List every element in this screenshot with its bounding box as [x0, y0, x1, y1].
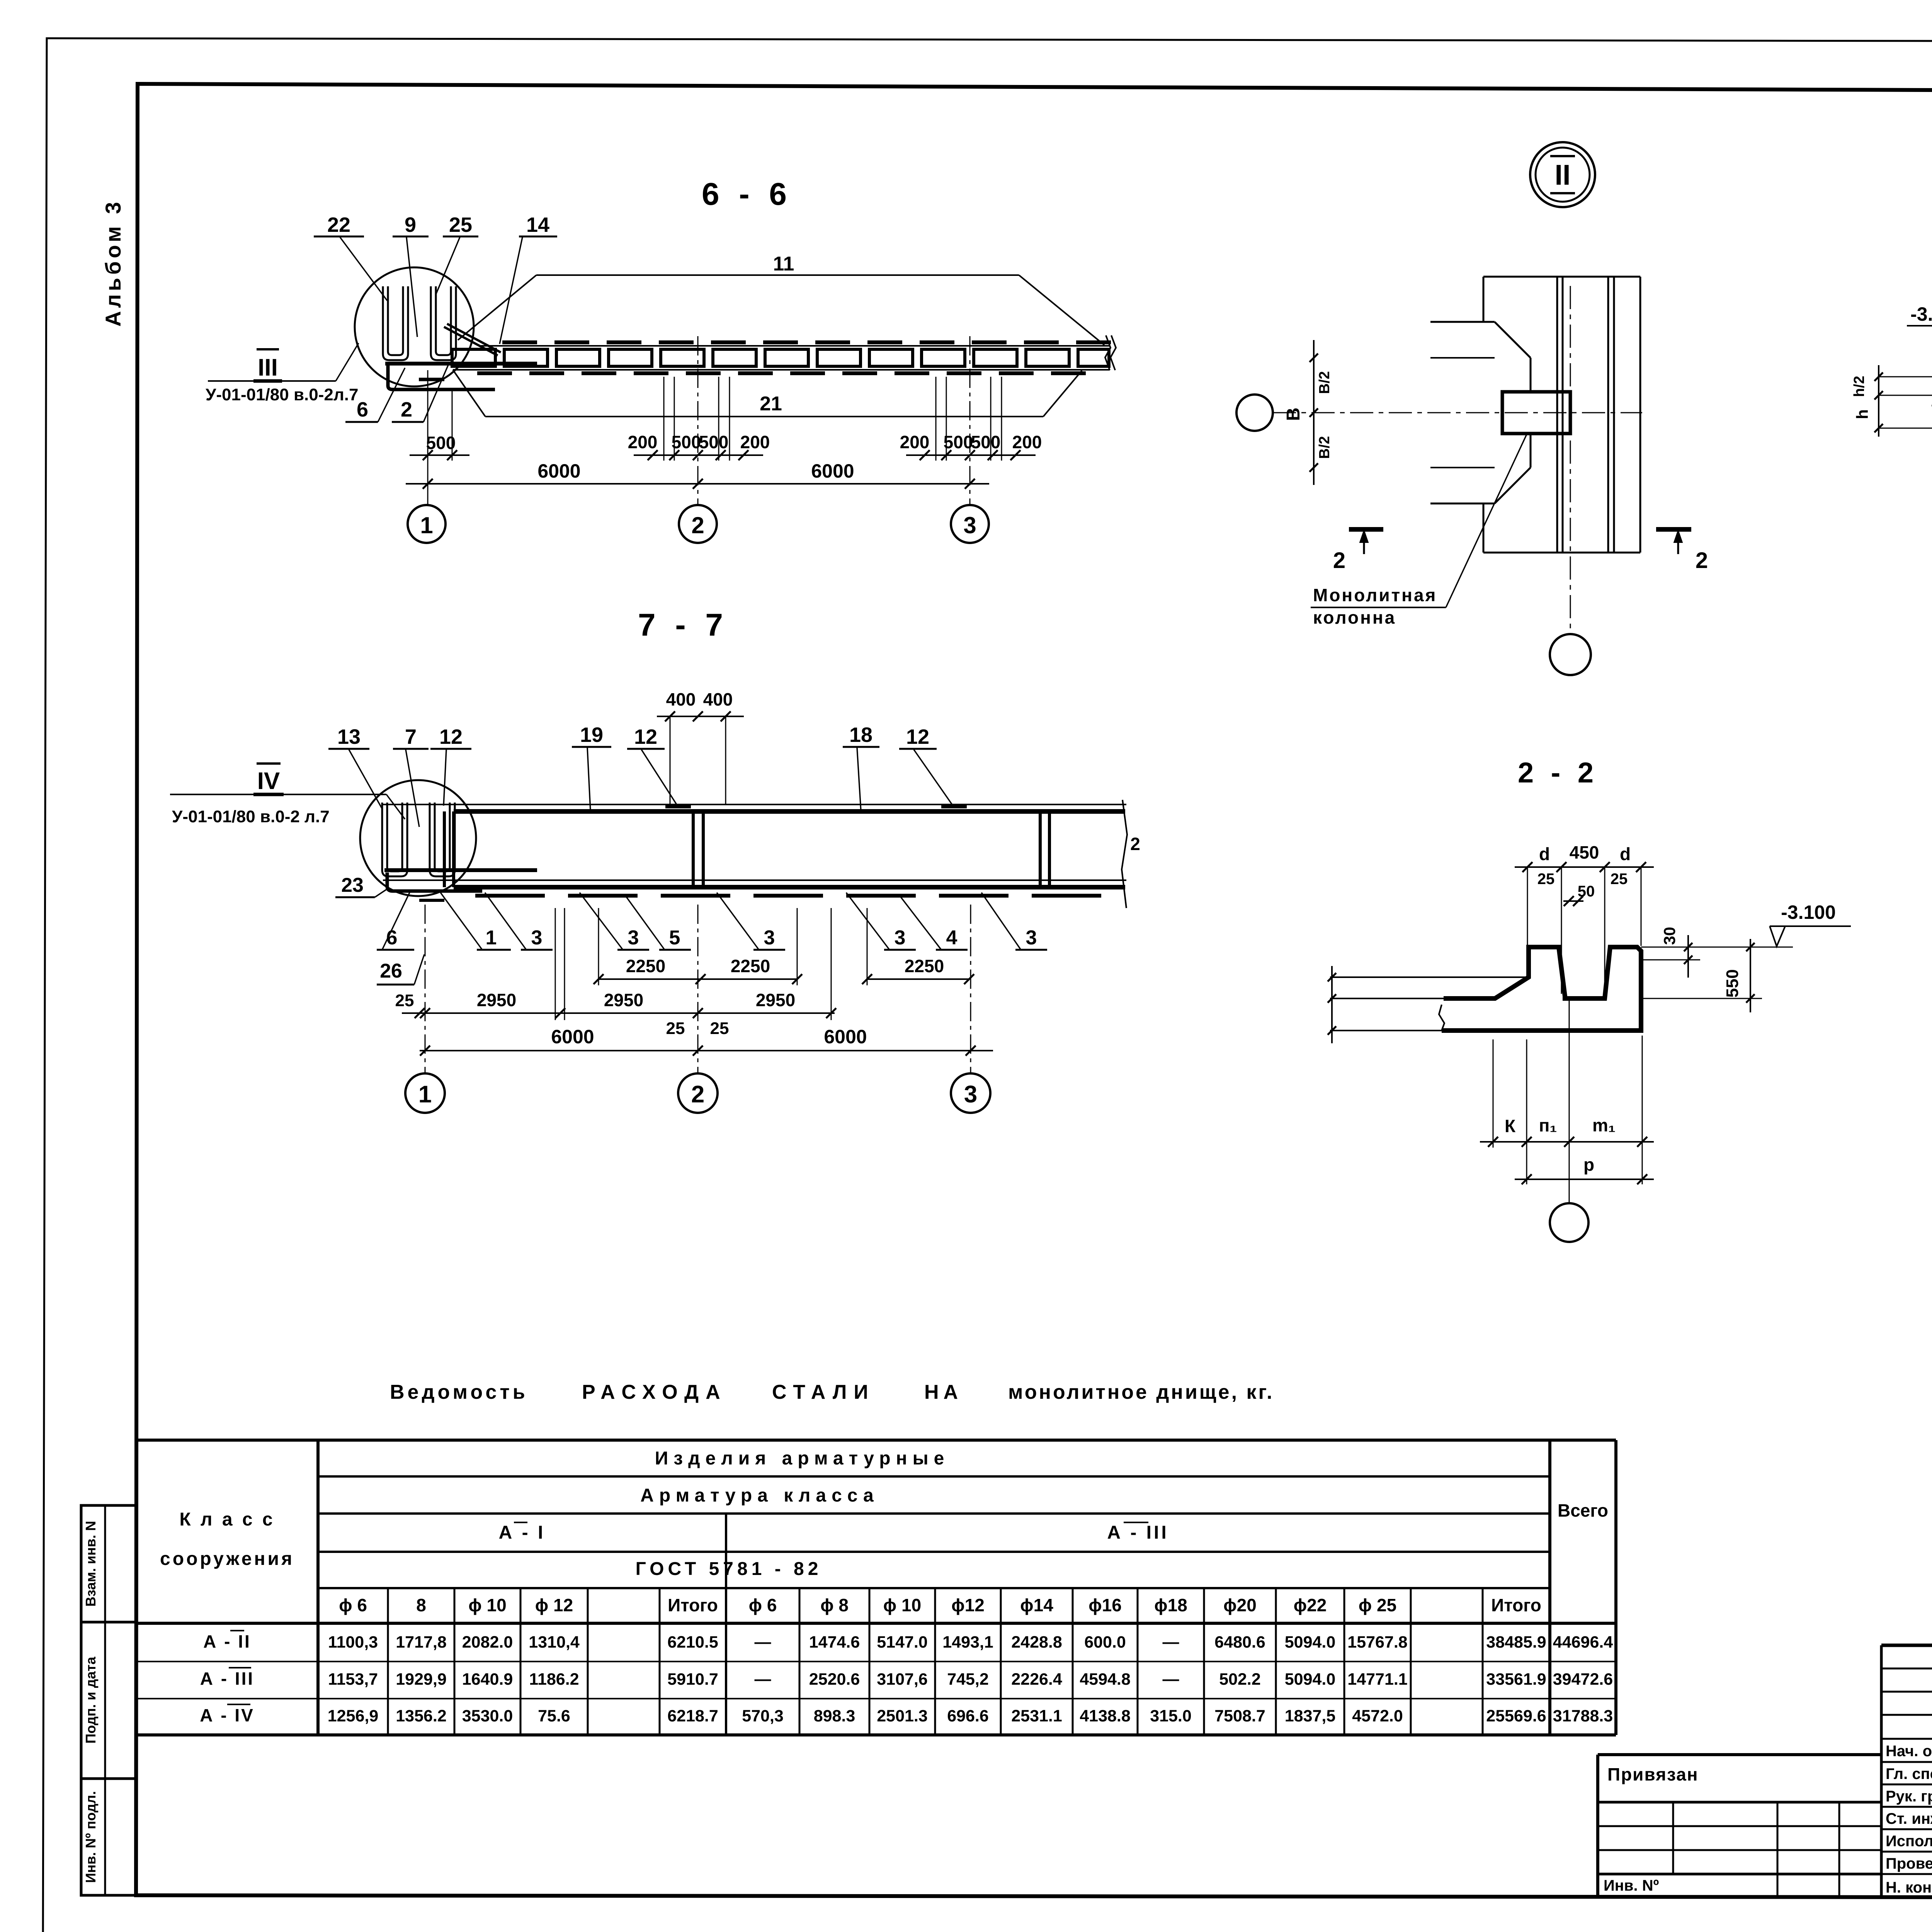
svg-text:Ст. инж.: Ст. инж.: [1886, 1810, 1932, 1827]
margin box Подп. и дата: [81, 1622, 136, 1779]
svg-text:сооружения: сооружения: [160, 1549, 294, 1569]
svg-text:570,3: 570,3: [742, 1707, 784, 1725]
table diameter header row: [339, 1595, 1541, 1615]
attachment table: [1598, 1755, 1881, 1895]
label 3e 7-7: [981, 893, 1047, 950]
svg-text:745,2: 745,2: [947, 1670, 989, 1689]
svg-text:ɸ 6: ɸ 6: [339, 1595, 367, 1615]
svg-text:2950: 2950: [477, 990, 516, 1010]
plan bottom edge: [1483, 552, 1640, 554]
svg-text:26: 26: [380, 960, 402, 982]
svg-text:600.0: 600.0: [1084, 1633, 1126, 1651]
svg-text:А - IV: А - IV: [200, 1705, 255, 1725]
svg-text:22: 22: [327, 213, 350, 236]
svg-text:500: 500: [699, 432, 729, 452]
svg-text:500: 500: [971, 432, 1001, 452]
svg-text:5: 5: [669, 927, 680, 949]
bottom bar dashes 7-7: [475, 894, 1101, 898]
svg-text:А - II: А - II: [203, 1631, 251, 1651]
svg-text:39472.6: 39472.6: [1553, 1670, 1613, 1689]
svg-text:400: 400: [703, 689, 733, 709]
dim group axis2 6-6: [628, 432, 770, 460]
svg-text:1837,5: 1837,5: [1285, 1707, 1336, 1725]
svg-text:ɸ16: ɸ16: [1088, 1595, 1122, 1615]
svg-text:Гл. спец.: Гл. спец.: [1886, 1765, 1932, 1782]
axis circle 3 7-7: [951, 1073, 990, 1113]
svg-text:38485.9: 38485.9: [1486, 1633, 1546, 1651]
label 22: [314, 213, 387, 301]
axis circle 1 7-7: [405, 1073, 445, 1113]
label 1 7-7: [440, 893, 511, 950]
staff roles: [1886, 1743, 1932, 1896]
top dims 2-2: [1515, 842, 1654, 994]
svg-text:—: —: [755, 1670, 771, 1689]
svg-text:23: 23: [341, 874, 364, 896]
svg-text:25: 25: [666, 1019, 685, 1038]
label 3b 7-7: [580, 893, 649, 950]
dim 2250 row: [594, 956, 974, 984]
svg-text:5094.0: 5094.0: [1285, 1670, 1336, 1689]
svg-text:—: —: [755, 1633, 771, 1651]
right break 6-6: [1105, 335, 1116, 370]
lower slab cut: [1430, 434, 1531, 553]
svg-text:2250: 2250: [626, 956, 665, 976]
right dims 30 550 2-2: [1641, 927, 1762, 1012]
label 25: [436, 213, 478, 294]
svg-text:2950: 2950: [604, 990, 643, 1010]
svg-text:1310,4: 1310,4: [529, 1633, 580, 1651]
svg-text:2: 2: [1696, 548, 1708, 573]
label 6 6-6: [345, 368, 405, 422]
svg-text:2520.6: 2520.6: [809, 1670, 860, 1689]
svg-text:30: 30: [1660, 927, 1679, 945]
svg-text:75.6: 75.6: [538, 1707, 570, 1725]
svg-text:15767.8: 15767.8: [1347, 1633, 1407, 1651]
svg-text:2250: 2250: [731, 956, 770, 976]
svg-text:5910.7: 5910.7: [667, 1670, 718, 1689]
svg-text:6000: 6000: [824, 1026, 867, 1048]
node ref IV: [170, 764, 405, 819]
svg-text:25: 25: [395, 991, 414, 1010]
svg-text:898.3: 898.3: [814, 1707, 855, 1725]
svg-text:4138.8: 4138.8: [1080, 1707, 1131, 1725]
section 7-7 title: [638, 607, 728, 643]
svg-text:19: 19: [580, 723, 603, 747]
label 11: [773, 253, 794, 275]
svg-text:3: 3: [531, 927, 543, 949]
svg-text:18: 18: [849, 723, 872, 747]
monolithic column rect: [1502, 392, 1570, 434]
wall vertical pair right: [1608, 277, 1614, 553]
svg-text:Привязан: Привязан: [1607, 1764, 1699, 1784]
svg-text:1153,7: 1153,7: [328, 1670, 378, 1689]
L-shaped bar 6-6: [388, 365, 495, 389]
axis circle 3 6-6: [951, 505, 989, 543]
svg-text:2: 2: [691, 1081, 704, 1108]
title block outer lines: [1881, 1645, 1932, 1898]
detail circle 6-6: [355, 267, 474, 386]
svg-text:1929,9: 1929,9: [396, 1670, 447, 1689]
column strip verticals 6-6: [664, 377, 1002, 461]
upper slab cut: [1430, 277, 1531, 392]
dim group axis3 6-6: [900, 432, 1042, 460]
svg-text:2: 2: [691, 512, 704, 538]
svg-text:НА: НА: [924, 1381, 963, 1403]
svg-text:ɸ 25: ɸ 25: [1359, 1595, 1396, 1615]
label 9: [393, 213, 429, 337]
svg-text:-3.100: -3.100: [1910, 303, 1932, 325]
label 26: [377, 954, 424, 985]
svg-text:12: 12: [634, 725, 657, 748]
slab chord lines 6-6: [453, 346, 1110, 370]
svg-text:1: 1: [486, 927, 497, 949]
svg-text:m₁: m₁: [1592, 1115, 1616, 1135]
svg-text:450: 450: [1570, 842, 1599, 862]
axis circle 2-2: [1550, 1203, 1588, 1242]
svg-text:2950: 2950: [756, 990, 795, 1010]
wall vertical pair left: [1557, 277, 1563, 553]
svg-text:В/2: В/2: [1316, 436, 1333, 459]
svg-text:12: 12: [439, 725, 463, 748]
svg-text:3: 3: [1026, 927, 1037, 949]
svg-text:4: 4: [946, 927, 957, 949]
band bottom thin 7-7: [383, 879, 1126, 881]
axis circle left node II: [1236, 395, 1273, 431]
svg-text:315.0: 315.0: [1150, 1707, 1192, 1725]
svg-text:2531.1: 2531.1: [1011, 1707, 1062, 1725]
svg-text:ГОСТ 5781 - 82: ГОСТ 5781 - 82: [636, 1559, 822, 1579]
label 12a: [430, 725, 471, 806]
U-channel right 7-7: [430, 803, 455, 876]
svg-text:2: 2: [401, 398, 412, 421]
svg-text:200: 200: [1012, 432, 1042, 452]
svg-text:РАСХОДА: РАСХОДА: [582, 1381, 727, 1403]
svg-text:В/2: В/2: [1316, 371, 1333, 394]
svg-text:Альбом 3: Альбом 3: [101, 199, 125, 327]
rib left 7-7: [444, 811, 454, 887]
svg-text:Изделия арматурные: Изделия арматурные: [655, 1448, 950, 1469]
label 2 6-6: [392, 363, 449, 422]
axis line 2 7-7: [697, 905, 699, 1073]
svg-text:50: 50: [1578, 883, 1595, 900]
svg-text:Рук. гр.: Рук. гр.: [1886, 1788, 1932, 1805]
svg-text:p: p: [1583, 1155, 1594, 1175]
label 3c 7-7: [717, 893, 785, 950]
svg-text:6210.5: 6210.5: [667, 1633, 718, 1651]
rib right 7-7: [1040, 811, 1049, 887]
svg-text:200: 200: [900, 432, 930, 452]
svg-text:Нач. отд.: Нач. отд.: [1886, 1743, 1932, 1760]
svg-text:4572.0: 4572.0: [1352, 1707, 1403, 1725]
svg-text:Инв. Nº подл.: Инв. Nº подл.: [83, 1791, 99, 1883]
plan center horizontal: [1273, 412, 1642, 413]
svg-text:ɸ20: ɸ20: [1223, 1595, 1257, 1615]
dim 6000 7-7: [420, 1026, 993, 1056]
left dims h 8-8: [1851, 365, 1932, 437]
svg-text:25: 25: [710, 1019, 729, 1038]
svg-text:СТАЛИ: СТАЛИ: [772, 1381, 875, 1403]
dim 6000 6-6: [406, 460, 989, 489]
label monolithic column: [1311, 434, 1527, 628]
svg-text:3: 3: [628, 927, 639, 949]
svg-text:2428.8: 2428.8: [1011, 1633, 1062, 1651]
svg-text:9: 9: [405, 213, 416, 236]
stirrups 6-6: [452, 349, 1109, 366]
bottom bar in detail 6-6: [385, 362, 537, 366]
svg-text:d: d: [1539, 844, 1550, 864]
bent diagonal bar 6-6: [444, 324, 501, 355]
svg-text:2250: 2250: [905, 956, 944, 976]
svg-text:200: 200: [628, 432, 658, 452]
svg-text:1493,1: 1493,1: [942, 1633, 993, 1651]
label 3a 7-7: [485, 893, 553, 950]
sub dims 25 50 2-2: [1537, 871, 1628, 906]
svg-text:7508.7: 7508.7: [1214, 1707, 1265, 1725]
axis line 3 7-7: [970, 905, 971, 1073]
svg-text:У-01-01/80 в.0-2 л.7: У-01-01/80 в.0-2 л.7: [172, 807, 330, 826]
node II bubble: [1530, 142, 1595, 207]
svg-text:1256,9: 1256,9: [328, 1707, 379, 1725]
svg-text:В: В: [1283, 408, 1304, 421]
svg-text:7 - 7: 7 - 7: [638, 607, 728, 643]
album label: [101, 199, 125, 327]
svg-text:5147.0: 5147.0: [877, 1633, 928, 1651]
plan top edge: [1483, 276, 1640, 278]
svg-text:2082.0: 2082.0: [462, 1633, 513, 1651]
svg-text:6000: 6000: [811, 460, 854, 482]
short bar 7-7: [419, 899, 444, 902]
label 19: [572, 723, 611, 811]
svg-text:12: 12: [906, 725, 929, 748]
svg-text:монолитное днище, кг.: монолитное днище, кг.: [1008, 1381, 1274, 1403]
section mark 2 left: [1333, 529, 1383, 573]
label 7: [393, 725, 429, 827]
bottom outline 6-6: [453, 370, 1082, 417]
bottom dim p 2-2: [1515, 1155, 1654, 1184]
svg-text:11: 11: [773, 253, 794, 275]
svg-text:696.6: 696.6: [947, 1707, 989, 1725]
svg-text:Инв. Nº: Инв. Nº: [1604, 1877, 1659, 1894]
svg-text:1640.9: 1640.9: [462, 1670, 513, 1689]
svg-text:2501.3: 2501.3: [877, 1707, 928, 1725]
dim B left: [1283, 340, 1333, 485]
svg-text:ɸ22: ɸ22: [1294, 1595, 1327, 1615]
svg-text:К л а с с: К л а с с: [179, 1509, 275, 1530]
wall vertical outer: [1639, 277, 1641, 553]
elevation -3.100 2-2: [1641, 901, 1851, 947]
svg-text:III: III: [258, 354, 278, 381]
svg-text:500: 500: [944, 432, 973, 452]
svg-text:К: К: [1505, 1116, 1516, 1136]
right break 7-7: [1122, 800, 1140, 908]
svg-text:1100,3: 1100,3: [328, 1633, 378, 1651]
U-channel left 6-6: [383, 286, 408, 360]
svg-text:3: 3: [964, 1081, 977, 1108]
svg-text:Арматура класса: Арматура класса: [640, 1485, 879, 1506]
svg-text:Всего: Всего: [1558, 1500, 1608, 1520]
svg-text:500: 500: [672, 432, 701, 452]
svg-text:Провер.: Провер.: [1886, 1855, 1932, 1872]
svg-text:1356.2: 1356.2: [396, 1707, 447, 1725]
svg-text:d: d: [1620, 844, 1631, 864]
svg-text:Итого: Итого: [1491, 1595, 1541, 1615]
svg-text:550: 550: [1723, 969, 1742, 997]
L-shaped bar 7-7: [387, 872, 482, 891]
svg-text:3530.0: 3530.0: [462, 1707, 513, 1725]
svg-text:6218.7: 6218.7: [667, 1707, 718, 1725]
svg-text:14: 14: [526, 213, 549, 236]
svg-text:У-01-01/80 в.0-2л.7: У-01-01/80 в.0-2л.7: [206, 385, 358, 404]
svg-text:h/2: h/2: [1851, 376, 1867, 397]
table data row 1: [203, 1631, 1613, 1651]
ref text У-01-01/80 6-6: [206, 385, 358, 404]
svg-text:Н. контр.: Н. контр.: [1886, 1879, 1932, 1896]
svg-text:14771.1: 14771.1: [1347, 1670, 1407, 1689]
U-channel right 6-6: [431, 286, 456, 360]
svg-text:Исполн.: Исполн.: [1886, 1833, 1932, 1850]
label 21: [760, 393, 782, 415]
axis circle bottom node II: [1550, 634, 1591, 675]
section mark 2 right: [1656, 529, 1708, 573]
label 4 7-7: [900, 896, 968, 950]
svg-text:25: 25: [449, 213, 472, 236]
label 23: [335, 874, 386, 897]
svg-text:5094.0: 5094.0: [1285, 1633, 1336, 1651]
label 3d 7-7: [846, 893, 916, 950]
svg-text:1: 1: [418, 1081, 432, 1108]
section 2-2 title: [1518, 757, 1598, 789]
svg-text:А - III: А - III: [1107, 1522, 1168, 1543]
svg-text:6000: 6000: [537, 460, 580, 482]
U-channel left 7-7: [382, 803, 407, 876]
table header spans: [499, 1448, 1169, 1579]
svg-text:25: 25: [1611, 871, 1628, 888]
svg-text:—: —: [1163, 1670, 1179, 1689]
top dash 12 right: [941, 804, 967, 808]
extension verticals 7-7: [555, 908, 867, 1020]
svg-text:31788.3: 31788.3: [1553, 1707, 1613, 1725]
svg-text:33561.9: 33561.9: [1486, 1670, 1546, 1689]
table data row 3: [200, 1704, 1613, 1725]
svg-text:6 - 6: 6 - 6: [702, 177, 792, 212]
ref text У-01-01/80 7-7: [172, 807, 330, 826]
top dash 12 mid: [665, 804, 691, 808]
svg-text:200: 200: [740, 432, 770, 452]
svg-text:колонна: колонна: [1313, 607, 1396, 628]
svg-text:3: 3: [963, 512, 976, 538]
svg-text:21: 21: [760, 393, 782, 415]
label 12b: [627, 725, 677, 806]
svg-text:-3.100: -3.100: [1781, 901, 1836, 923]
bottom bar in detail 7-7: [384, 868, 537, 872]
table Всего header: [1558, 1500, 1608, 1520]
dim 500 at axis1: [410, 389, 469, 461]
axis circle 2 6-6: [679, 505, 717, 543]
svg-text:ɸ 10: ɸ 10: [468, 1595, 506, 1615]
rib axis2 7-7: [693, 811, 703, 887]
svg-text:13: 13: [337, 725, 361, 748]
plan center vertical: [1570, 286, 1571, 634]
svg-text:6480.6: 6480.6: [1214, 1633, 1265, 1651]
elevation -3.100 8-8: [1907, 303, 1932, 350]
svg-text:25569.6: 25569.6: [1486, 1707, 1546, 1725]
svg-text:6000: 6000: [551, 1026, 594, 1048]
label 5 7-7: [626, 896, 691, 950]
band top chord 7-7: [454, 809, 1125, 814]
label 13: [328, 725, 383, 810]
svg-text:ɸ18: ɸ18: [1154, 1595, 1187, 1615]
svg-text:1: 1: [420, 512, 433, 538]
axis line 1 6-6: [427, 370, 429, 505]
attachment label Инв N: [1604, 1877, 1659, 1894]
bottom dims K n1 m1 2-2: [1480, 1036, 1654, 1184]
section 6-6 title: [702, 177, 792, 212]
svg-text:ɸ14: ɸ14: [1020, 1595, 1053, 1615]
dim 25 25 axis2: [666, 1019, 729, 1038]
svg-text:Ведомость: Ведомость: [390, 1381, 528, 1403]
left thin lines 2-2: [1328, 966, 1529, 1043]
top bar dashes 6-6: [502, 340, 1111, 344]
svg-text:ɸ 8: ɸ 8: [820, 1595, 849, 1615]
short bar under right U 6-6: [419, 378, 444, 381]
table title: [390, 1381, 1274, 1403]
top outline 6-6: [458, 275, 1104, 345]
svg-text:3: 3: [895, 927, 906, 949]
label 6 7-7: [377, 893, 414, 950]
label 14: [500, 213, 557, 344]
svg-text:1186.2: 1186.2: [529, 1670, 579, 1689]
axis line 3 6-6: [969, 336, 971, 505]
svg-text:2226.4: 2226.4: [1011, 1670, 1062, 1689]
label 12c: [899, 725, 953, 806]
svg-text:ɸ12: ɸ12: [951, 1595, 985, 1615]
svg-text:400: 400: [666, 689, 696, 709]
detail circle 7-7: [360, 780, 476, 896]
svg-text:А - I: А - I: [499, 1522, 546, 1543]
staff grid: [1881, 1645, 1932, 1898]
band top thin 7-7: [383, 804, 1126, 805]
svg-text:2: 2: [1130, 834, 1140, 854]
svg-text:п₁: п₁: [1539, 1115, 1557, 1135]
axis line 2-2: [1569, 1001, 1570, 1202]
bottom bar dashes 6-6: [477, 371, 1086, 375]
margin box Инв. N подл.: [81, 1505, 136, 1895]
svg-text:А - III: А - III: [200, 1668, 254, 1689]
dim 2950 row: [395, 990, 836, 1018]
svg-text:1474.6: 1474.6: [809, 1633, 860, 1651]
svg-text:502.2: 502.2: [1219, 1670, 1261, 1689]
axis line 1 7-7: [425, 905, 426, 1073]
node ref III: [208, 343, 359, 381]
svg-text:6: 6: [357, 398, 368, 421]
svg-text:3: 3: [764, 927, 775, 949]
svg-text:Итого: Итого: [668, 1595, 718, 1615]
band bottom chord 7-7: [454, 885, 1125, 889]
svg-text:ɸ 6: ɸ 6: [749, 1595, 777, 1615]
svg-text:II: II: [1554, 159, 1570, 191]
svg-text:500: 500: [426, 433, 456, 453]
dim 400 400 7-7: [657, 689, 744, 804]
svg-text:ɸ 10: ɸ 10: [883, 1595, 921, 1615]
table left header Класс сооружения: [160, 1509, 294, 1569]
table data row 2: [200, 1668, 1613, 1689]
svg-text:44696.4: 44696.4: [1553, 1633, 1613, 1651]
svg-text:25: 25: [1537, 871, 1555, 888]
axis line 2 6-6: [697, 336, 699, 505]
svg-text:3107,6: 3107,6: [877, 1670, 928, 1689]
svg-text:—: —: [1163, 1633, 1179, 1651]
svg-text:IV: IV: [257, 768, 280, 794]
